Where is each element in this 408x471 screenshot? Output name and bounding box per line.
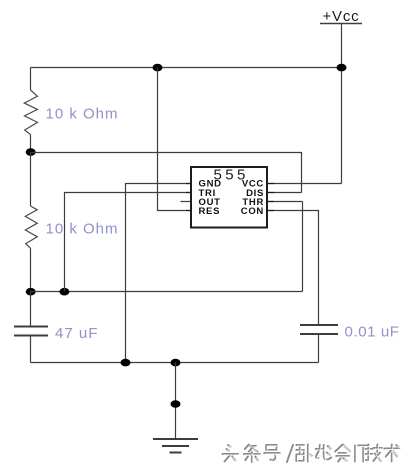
ground — [153, 439, 198, 453]
pin stub DIS right — [267, 192, 274, 194]
svg-text:CON: CON — [241, 206, 264, 217]
+Vcc power symbol — [320, 8, 362, 25]
node: TRI branch junction — [59, 288, 69, 296]
wire: R2 bottom lead — [30, 248, 32, 291]
pin stub THR right — [267, 201, 274, 203]
resistor R1 — [24, 90, 37, 135]
node: ground rail / ground stem — [171, 359, 181, 367]
capacitor C2 bottom lead — [318, 335, 320, 363]
node: R2 / C1 / THR-TRI junction — [26, 288, 36, 296]
wire: THR vertical — [302, 202, 304, 292]
wire: Vcc stem down to VCC pin — [341, 24, 343, 184]
wire: bottom ground rail — [31, 362, 319, 364]
svg-text:47 uF: 47 uF — [55, 325, 98, 342]
IC U1 555 timer body — [191, 167, 267, 228]
node: on ground stem — [171, 400, 181, 408]
wire: OUT pin stub — [181, 201, 192, 203]
wire: CON pin horizontal and down to C2 — [267, 211, 319, 325]
wire: VCC pin horizontal — [267, 183, 342, 185]
capacitor C1 47 uF plates — [14, 327, 48, 336]
capacitor C1 bottom lead — [30, 336, 32, 363]
node: ground rail / GND branch — [121, 359, 131, 367]
watermark — [223, 445, 400, 463]
capacitor C2 0.01 uF plates — [300, 325, 338, 334]
svg-text:10 k Ohm: 10 k Ohm — [46, 221, 119, 238]
wire: R2 top lead — [30, 153, 32, 207]
wire: DIS pin horizontal — [267, 192, 302, 194]
wire: R1 bottom lead — [30, 135, 32, 152]
resistor R2 — [25, 206, 37, 248]
wire: junction to DIS (horizontal then down) — [31, 153, 302, 193]
pin stub VCC right — [267, 183, 274, 185]
pin stub TRI left — [186, 192, 191, 194]
svg-text:0.01 uF: 0.01 uF — [345, 324, 400, 341]
svg-text:RES: RES — [199, 206, 221, 217]
pin stub RES left — [186, 210, 191, 212]
svg-text:10 k Ohm: 10 k Ohm — [46, 106, 119, 123]
wire: GND pin to ground rail (horizontal then down) — [126, 184, 192, 363]
pin stub CON right — [267, 210, 274, 212]
pin stub GND left — [186, 183, 191, 185]
node: top rail / Vcc junction — [337, 64, 347, 72]
wire: left rail top (Vcc rail to R1) — [30, 68, 32, 91]
capacitor C1 47 uF top lead — [30, 292, 32, 327]
svg-text:+Vcc: +Vcc — [323, 8, 360, 25]
node: top rail / RES branch — [153, 64, 163, 72]
wire: top rail — [31, 67, 342, 69]
wire: TRI branch vertical and to TRI pin — [65, 193, 192, 292]
wire: THR pin horizontal — [267, 201, 303, 203]
wire: ground stem — [175, 363, 177, 439]
node: R1/R2/DIS junction — [26, 148, 36, 156]
wire: THR-TRI horizontal rail — [31, 291, 303, 293]
wire: RES branch vertical and to RES pin — [158, 68, 192, 211]
